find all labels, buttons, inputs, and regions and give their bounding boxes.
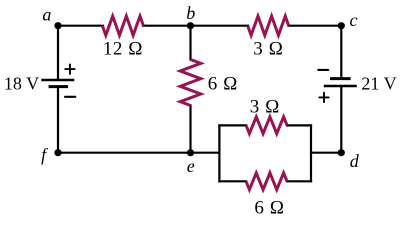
wire parallel box top-left segment: [219, 124, 246, 126]
svg-text:e: e: [187, 156, 195, 176]
svg-text:a: a: [42, 5, 51, 25]
svg-text:3 Ω: 3 Ω: [253, 39, 283, 60]
wire parallel box to d: [311, 152, 341, 154]
battery V1 plus sign: [65, 68, 74, 70]
wire parallel box bottom-right segment: [287, 180, 311, 182]
resistor 6 ohm (b-e vertical): [180, 60, 201, 106]
wire parallel box bottom-left segment: [219, 180, 246, 182]
svg-text:c: c: [350, 10, 358, 30]
svg-text:6 Ω: 6 Ω: [208, 73, 238, 94]
svg-text:3 Ω: 3 Ω: [250, 96, 280, 117]
battery V1 minus sign: [65, 96, 75, 98]
wire R6 to e: [189, 106, 191, 153]
wire battery V1 to f: [57, 88, 59, 153]
svg-text:6 Ω: 6 Ω: [254, 198, 284, 218]
resistor 3 ohm (b-c): [248, 16, 289, 35]
svg-text:12 Ω: 12 Ω: [103, 38, 143, 59]
resistor 3 ohm (parallel top): [246, 117, 287, 134]
wire R12 to b: [143, 25, 191, 27]
wire a down to battery V1: [57, 26, 59, 79]
node d: [338, 149, 345, 156]
svg-text:18 V: 18 V: [4, 74, 39, 94]
wire parallel box left edge: [218, 125, 220, 181]
node e: [187, 149, 194, 156]
battery V2 minus sign: [318, 69, 328, 71]
wire battery V2 to d: [340, 87, 342, 153]
wire b to R3top: [191, 25, 249, 27]
wire R3top to c: [289, 25, 342, 27]
battery V1 18V long plate (+): [41, 79, 74, 82]
resistor 6 ohm (parallel bottom): [246, 173, 287, 190]
wire f to e: [58, 152, 191, 154]
battery V1 18V short plate (-): [49, 85, 69, 88]
wire c down to battery V2: [340, 26, 342, 78]
node a: [54, 22, 61, 29]
battery V2 21V short plate (-): [330, 77, 351, 80]
battery V2 21V long plate (+): [324, 85, 357, 88]
battery V2 plus sign: [319, 96, 328, 98]
svg-text:21 V: 21 V: [361, 74, 396, 94]
wire a to R12: [58, 25, 103, 27]
node b: [187, 22, 194, 29]
resistor 12 ohm (a-b): [102, 16, 143, 35]
wire parallel box top-right segment: [287, 124, 311, 126]
wire parallel box right edge: [310, 125, 312, 181]
wire e to parallel box: [191, 152, 220, 154]
wire b down to R6: [189, 26, 191, 60]
node f: [54, 149, 61, 156]
svg-text:b: b: [186, 3, 195, 23]
svg-text:d: d: [350, 151, 360, 171]
node c: [338, 22, 345, 29]
